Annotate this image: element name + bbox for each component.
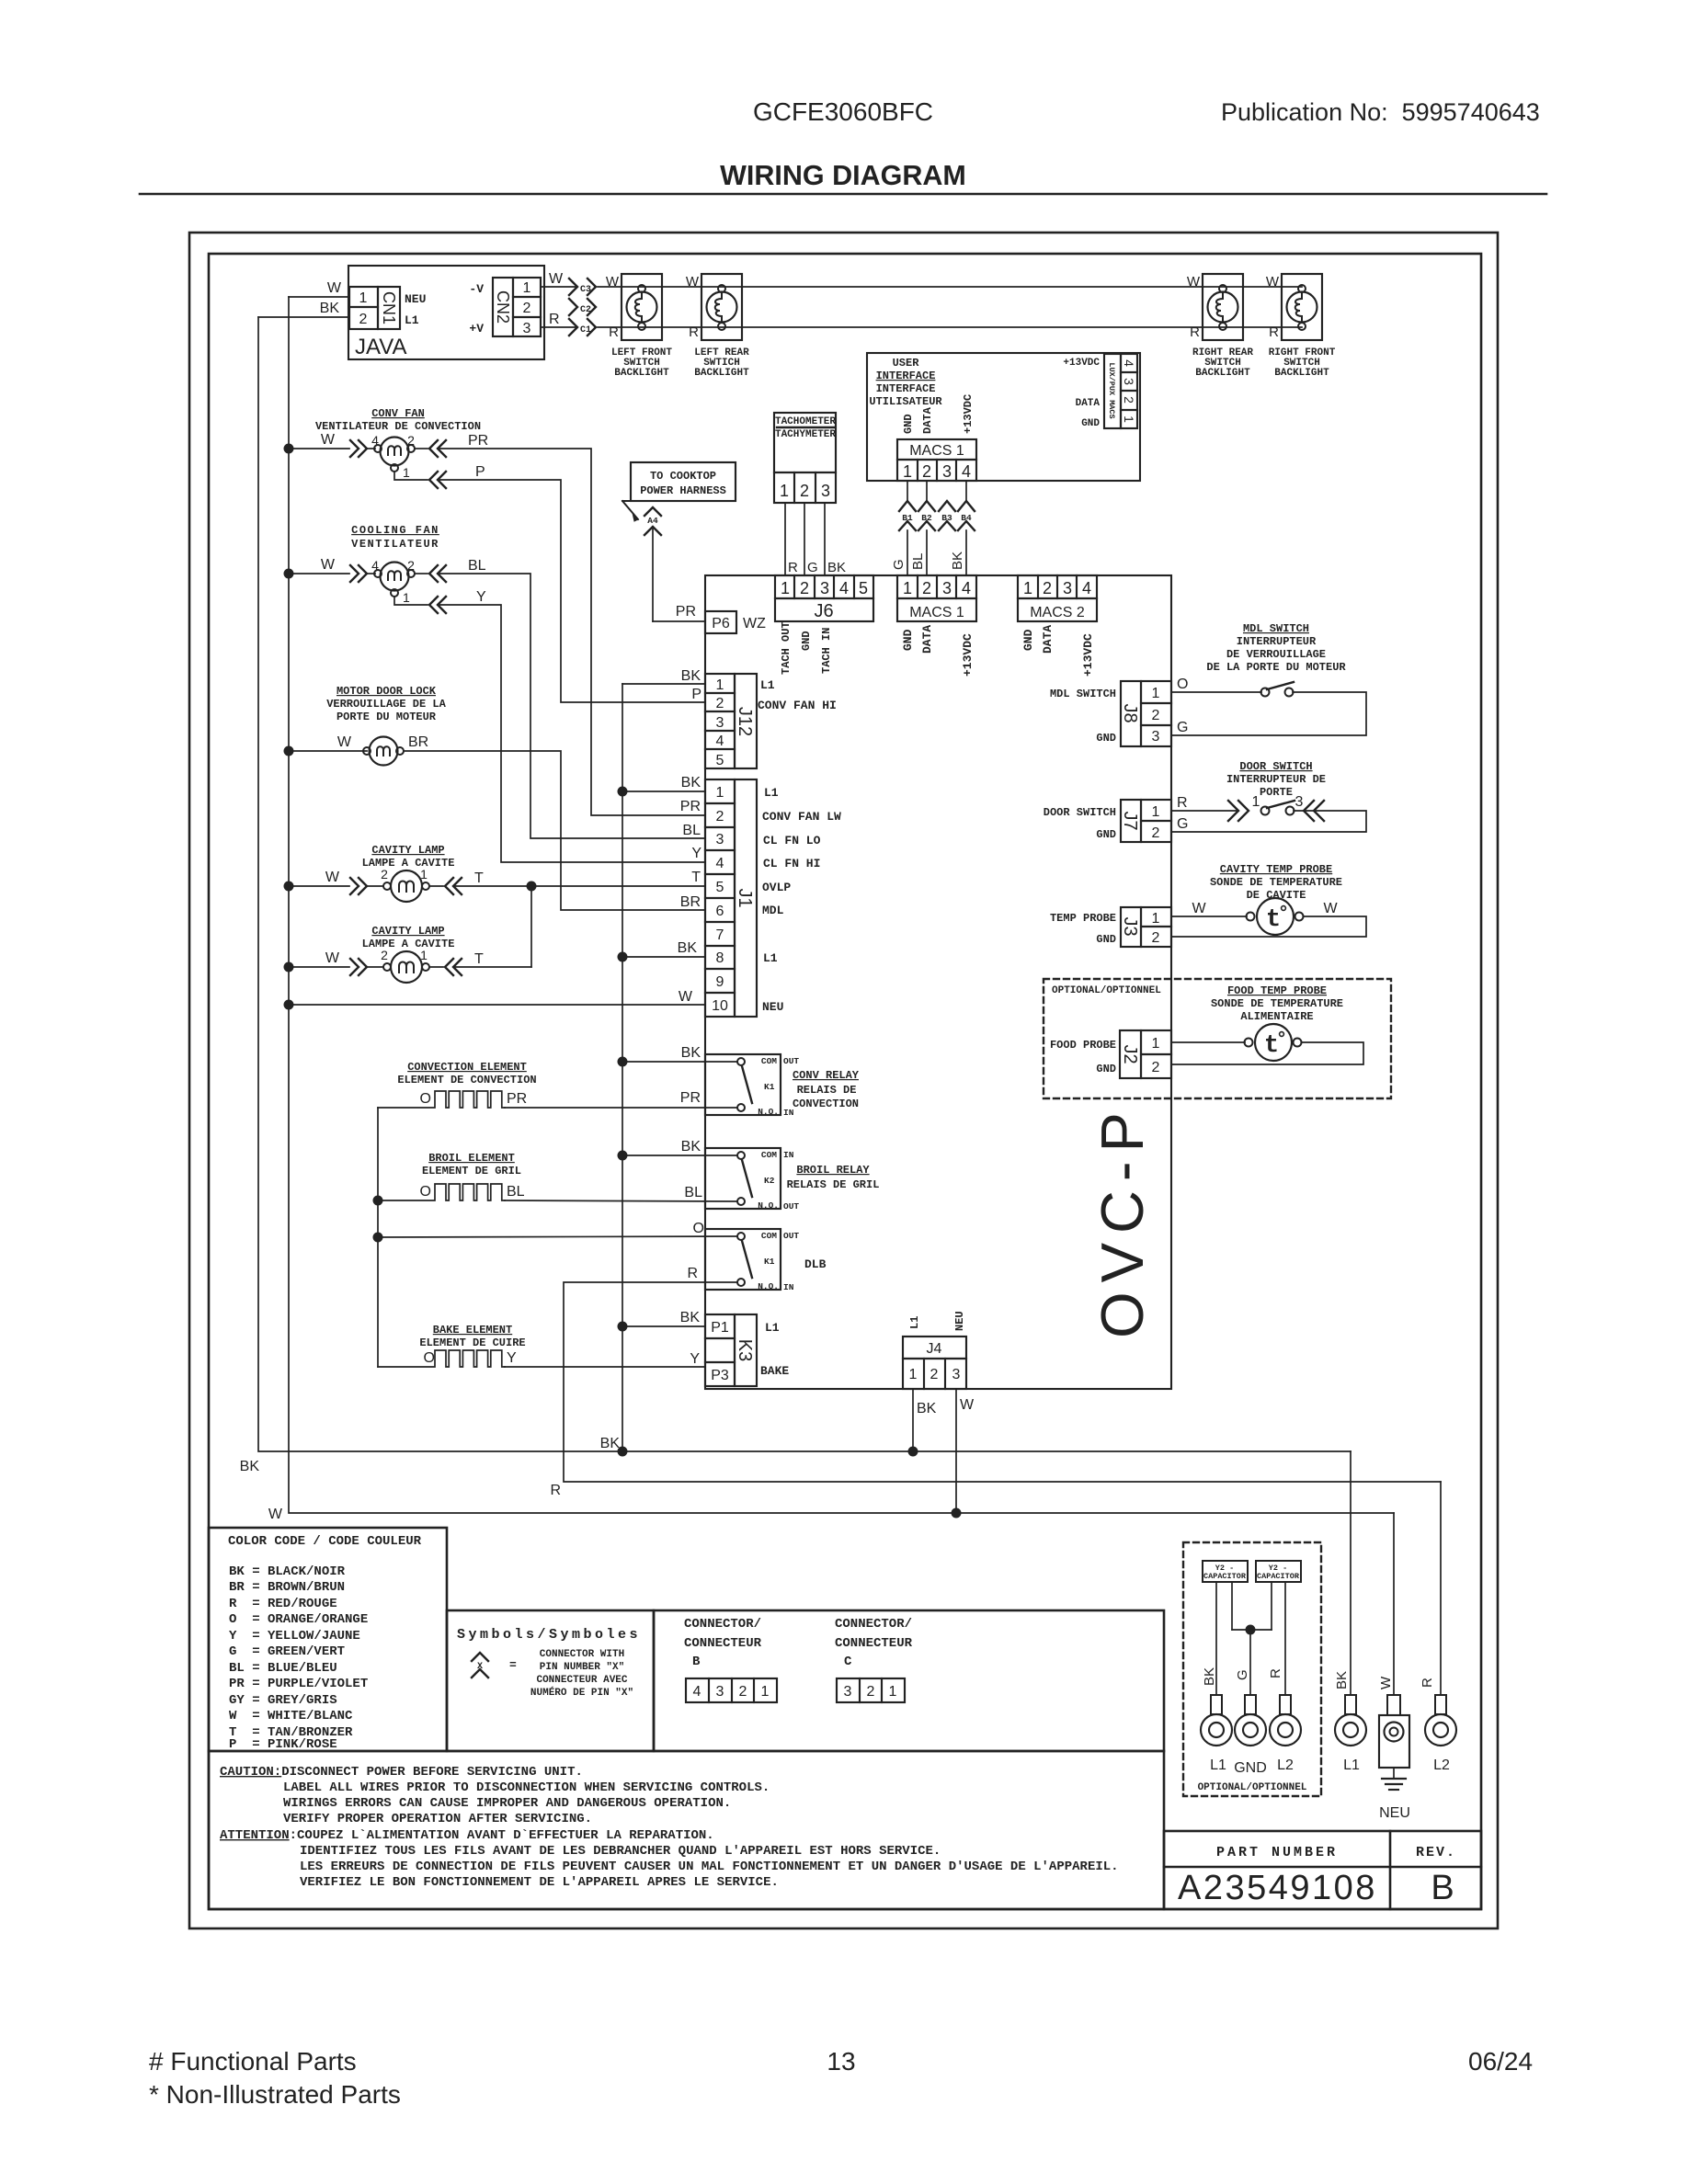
svg-text:PR: PR (676, 604, 696, 620)
svg-text:CONNECTOR/: CONNECTOR/ (684, 1617, 761, 1632)
svg-text:GND: GND (1096, 1063, 1116, 1075)
svg-text:1: 1 (1023, 579, 1032, 597)
svg-text:LAMPE A CAVITE: LAMPE A CAVITE (362, 857, 455, 870)
svg-text:PR: PR (468, 433, 488, 449)
wire W bus left (268, 297, 1394, 1522)
wire W to terminal NEU (1378, 1513, 1394, 1695)
svg-text:PORTE: PORTE (1260, 786, 1293, 799)
svg-text:UTILISATEUR: UTILISATEUR (869, 395, 942, 408)
svg-text:ELEMENT DE GRIL: ELEMENT DE GRIL (422, 1165, 521, 1177)
svg-text:BL: BL (910, 553, 926, 570)
svg-text:MACS 1: MACS 1 (909, 443, 964, 459)
svg-text:P1: P1 (711, 1320, 729, 1336)
wire BK to terminal L1 (1334, 1451, 1351, 1695)
svg-text:BK: BK (681, 775, 701, 791)
junction W bus motor door lock (284, 746, 294, 756)
svg-text:COM: COM (761, 1056, 777, 1066)
lamp RIGHT REAR SWITCH BACKLIGHT (1187, 274, 1254, 379)
svg-text:W: W (1323, 901, 1338, 916)
svg-text:J2: J2 (1120, 1044, 1140, 1064)
svg-text:PORTE DU MOTEUR: PORTE DU MOTEUR (336, 711, 437, 723)
wire BK tach pin3 to J6 pin3 (825, 503, 846, 575)
svg-text:PR: PR (680, 1090, 701, 1106)
junction W bus cooling fan (284, 569, 294, 579)
svg-text:1: 1 (403, 590, 410, 605)
svg-text:* Non-Illustrated Parts: * Non-Illustrated Parts (149, 2080, 401, 2109)
svg-text:3: 3 (523, 321, 531, 336)
connector J8 (1050, 681, 1171, 746)
svg-text:J1: J1 (735, 888, 755, 907)
svg-text:L1: L1 (764, 786, 779, 800)
svg-text:CONNECTEUR: CONNECTEUR (684, 1636, 762, 1651)
svg-text:Y: Y (690, 1351, 700, 1367)
svg-text:BL: BL (684, 1185, 702, 1200)
svg-text:OUT: OUT (783, 1231, 799, 1241)
svg-text:T: T (474, 951, 484, 967)
svg-text:W: W (327, 280, 342, 296)
svg-text:R: R (609, 324, 619, 340)
svg-text:W: W (1266, 274, 1280, 290)
svg-text:TEMP PROBE: TEMP PROBE (1050, 912, 1116, 925)
svg-text:3: 3 (1295, 794, 1304, 810)
svg-text:PART NUMBER: PART NUMBER (1216, 1845, 1338, 1860)
svg-text:N.O.: N.O. (758, 1281, 779, 1291)
svg-text:R = RED/ROUGE: R = RED/ROUGE (229, 1597, 337, 1611)
svg-text:G: G (891, 559, 907, 570)
connector B3 (939, 501, 955, 530)
connector C2 (no wire) (569, 299, 596, 315)
svg-text:L1: L1 (908, 1316, 921, 1329)
svg-text:MACS 1: MACS 1 (909, 605, 964, 620)
junction W bus J1 pin10 (284, 1000, 294, 1010)
junction BK bus J1 pin8 (618, 940, 706, 962)
svg-text:BK: BK (827, 560, 846, 575)
svg-text:L1: L1 (760, 678, 775, 692)
svg-text:O: O (420, 1091, 431, 1107)
connector K3 (705, 1314, 789, 1386)
svg-text:5: 5 (716, 753, 724, 768)
svg-text:1: 1 (1152, 804, 1160, 820)
svg-text:K1: K1 (764, 1082, 775, 1092)
svg-text:2: 2 (922, 579, 931, 597)
svg-text:TO COOKTOP: TO COOKTOP (650, 470, 716, 483)
svg-text:BACKLIGHT: BACKLIGHT (694, 368, 749, 379)
svg-text:A23549108: A23549108 (1178, 1869, 1377, 1907)
svg-text:P: P (475, 464, 485, 480)
svg-text:1: 1 (761, 1684, 770, 1700)
svg-text:3: 3 (821, 482, 830, 500)
svg-text:BK: BK (681, 668, 701, 684)
svg-text:BAKE ELEMENT: BAKE ELEMENT (433, 1324, 512, 1337)
svg-text:BK: BK (681, 1139, 701, 1155)
svg-text:L1: L1 (1343, 1757, 1360, 1773)
connector J7 (1044, 800, 1171, 842)
svg-text:P3: P3 (711, 1368, 729, 1383)
svg-text:BK: BK (680, 1310, 701, 1325)
svg-text:OUT: OUT (783, 1201, 799, 1211)
svg-text:P = PINK/ROSE: P = PINK/ROSE (229, 1737, 337, 1752)
terminal NEU (1379, 1695, 1410, 1821)
svg-text:3: 3 (952, 1367, 961, 1382)
svg-text:2: 2 (867, 1684, 875, 1700)
svg-text:GND: GND (902, 414, 915, 434)
svg-text:3: 3 (1122, 378, 1136, 385)
switch MDL SWITCH (1171, 622, 1366, 735)
svg-text:L1: L1 (1210, 1757, 1226, 1773)
svg-text:+V: +V (469, 322, 484, 336)
svg-text:BK: BK (917, 1401, 937, 1416)
svg-text:1: 1 (781, 579, 790, 597)
svg-text:W: W (321, 557, 336, 573)
connector B1 (899, 481, 916, 530)
svg-text:t: t (1266, 906, 1281, 934)
svg-text:2: 2 (1122, 396, 1136, 404)
capacitor Y2 left (1203, 1561, 1248, 1695)
wire O to DLB relay COM (378, 1221, 737, 1237)
heater BROIL ELEMENT (378, 1152, 525, 1200)
svg-text:BK: BK (1202, 1667, 1217, 1686)
svg-text:LAMPE A CAVITE: LAMPE A CAVITE (362, 938, 455, 950)
svg-text:C: C (844, 1655, 852, 1669)
connector J4 (903, 1311, 966, 1389)
capacitor Y2 right (1256, 1561, 1301, 1695)
svg-text:DATA: DATA (921, 406, 934, 434)
optional dashed box FOOD TEMP PROBE (1044, 979, 1391, 1098)
svg-text:BAKE: BAKE (760, 1364, 789, 1378)
svg-text:Publication No: 5995740643: Publication No: 5995740643 (1221, 98, 1540, 126)
svg-text:1: 1 (420, 867, 428, 882)
svg-text:DLB: DLB (804, 1257, 827, 1271)
svg-text:PR: PR (680, 799, 701, 814)
connector A4 (644, 507, 661, 535)
wire BK from CN1 pin 2 to BK bus (258, 301, 349, 317)
svg-text:1: 1 (1152, 1036, 1160, 1052)
svg-text:DOOR SWITCH: DOOR SWITCH (1044, 806, 1116, 819)
wire O element common bus (373, 1108, 383, 1367)
relay K2 BROIL RELAY (705, 1148, 879, 1211)
svg-text:J4: J4 (927, 1341, 942, 1357)
svg-text:1: 1 (420, 948, 428, 962)
svg-text:BACKLIGHT: BACKLIGHT (1274, 368, 1329, 379)
wire R to terminal L2 (1420, 1482, 1441, 1695)
svg-text:CAVITY TEMP PROBE: CAVITY TEMP PROBE (1220, 863, 1332, 876)
svg-text:1: 1 (523, 280, 531, 296)
svg-text:O = ORANGE/ORANGE: O = ORANGE/ORANGE (229, 1612, 368, 1627)
connector CN1 (349, 287, 426, 329)
svg-text:3: 3 (1152, 729, 1160, 745)
svg-text:ALIMENTAIRE: ALIMENTAIRE (1240, 1010, 1313, 1023)
svg-text:IN: IN (783, 1282, 794, 1292)
svg-text:BK = BLACK/NOIR: BK = BLACK/NOIR (229, 1564, 346, 1579)
junction W bus cavity lamp 2 (284, 962, 294, 973)
svg-text:3: 3 (716, 1684, 724, 1700)
svg-text:B: B (692, 1655, 701, 1669)
svg-text:CONVECTION ELEMENT: CONVECTION ELEMENT (407, 1061, 527, 1074)
wire R tach pin1 to J6 pin1 (785, 503, 798, 575)
lamp LEFT FRONT SWITCH BACKLIGHT (606, 274, 673, 379)
svg-text:3: 3 (942, 579, 952, 597)
svg-text:P: P (691, 687, 701, 702)
svg-text:CAVITY LAMP: CAVITY LAMP (371, 925, 444, 938)
svg-text:INTERRUPTEUR: INTERRUPTEUR (1237, 635, 1317, 648)
wire BL from B2 to MACS1 pin2 (910, 530, 927, 575)
connector J3 (1050, 907, 1171, 947)
svg-text:T: T (474, 870, 484, 886)
connector J6 (775, 575, 873, 675)
svg-text:1: 1 (716, 677, 724, 693)
svg-text:J12: J12 (735, 707, 755, 736)
svg-text:# Functional Parts: # Functional Parts (149, 2047, 357, 2076)
svg-text:MDL SWITCH: MDL SWITCH (1243, 622, 1309, 635)
svg-text:+13VDC: +13VDC (1081, 633, 1095, 677)
svg-text:BACKLIGHT: BACKLIGHT (1195, 368, 1250, 379)
OVC-P control board outline (705, 575, 1171, 1389)
svg-text:GND: GND (901, 629, 915, 651)
svg-text:LABEL ALL WIRES PRIOR TO DISCO: LABEL ALL WIRES PRIOR TO DISCONNECTION W… (283, 1780, 770, 1795)
svg-text:2: 2 (930, 1367, 939, 1382)
svg-text:CONNECTOR/: CONNECTOR/ (835, 1617, 912, 1632)
svg-text:BK: BK (600, 1436, 621, 1451)
optional dashed box capacitors (1183, 1542, 1321, 1796)
svg-text:GND: GND (1081, 418, 1100, 429)
svg-text:PR: PR (507, 1091, 527, 1107)
svg-text:BL: BL (507, 1184, 525, 1200)
svg-text:O: O (420, 1184, 431, 1200)
svg-text:N.O.: N.O. (758, 1107, 779, 1117)
heater CONVECTION ELEMENT (378, 1061, 537, 1108)
svg-text:G: G (1177, 720, 1188, 735)
svg-text:BL: BL (468, 558, 486, 574)
wire W top run to right front lamp (598, 286, 1302, 288)
connector J2 (1050, 1030, 1171, 1078)
svg-text:13: 13 (827, 2047, 855, 2076)
junction BK bus conv relay COM (618, 1045, 738, 1067)
svg-text:OPTIONAL/OPTIONNEL: OPTIONAL/OPTIONNEL (1198, 1782, 1307, 1793)
svg-text:DATA: DATA (1076, 398, 1101, 409)
wire W J4 pin3 (952, 1389, 975, 1519)
svg-text:R: R (1268, 1668, 1283, 1678)
svg-text:GND: GND (1234, 1760, 1267, 1776)
svg-text:OUT: OUT (783, 1056, 799, 1066)
svg-text:4: 4 (371, 558, 379, 573)
svg-text:3: 3 (1063, 579, 1072, 597)
svg-text:J8: J8 (1120, 703, 1140, 722)
inner border frame (209, 254, 1481, 1909)
wire G from B1 to MACS1 pin1 (891, 530, 907, 575)
wire P conv fan pin1 to J12 pin2 (394, 464, 705, 702)
wire R DLB relay NO (550, 1266, 1441, 1498)
svg-text:CAVITY LAMP: CAVITY LAMP (371, 844, 444, 857)
svg-text:WZ: WZ (743, 616, 766, 631)
svg-text:2: 2 (800, 482, 809, 500)
svg-text:NEU: NEU (762, 1000, 783, 1014)
symbols legend box (447, 1610, 654, 1751)
svg-text:CONNECTOR WITH: CONNECTOR WITH (540, 1649, 624, 1660)
svg-text:W: W (960, 1397, 975, 1413)
svg-text:A4: A4 (647, 516, 658, 526)
connector B4 (958, 481, 975, 530)
svg-text:1: 1 (1122, 415, 1136, 423)
svg-text:06/24: 06/24 (1468, 2047, 1533, 2076)
svg-text:R: R (1190, 324, 1200, 340)
wire G capacitor common to GND ring (1232, 1625, 1272, 1696)
svg-text:CONV RELAY: CONV RELAY (793, 1069, 860, 1082)
heater BAKE ELEMENT (378, 1324, 526, 1367)
svg-text:MOTOR DOOR LOCK: MOTOR DOOR LOCK (336, 685, 437, 698)
svg-text:Symbols/Symboles: Symbols/Symboles (457, 1627, 641, 1643)
probe CAVITY TEMP PROBE (1171, 863, 1366, 937)
svg-text:POWER HARNESS: POWER HARNESS (640, 484, 726, 497)
svg-text:ATTENTION:COUPEZ L`ALIMENTATIO: ATTENTION:COUPEZ L`ALIMENTATION AVANT D`… (220, 1828, 714, 1843)
svg-text:3: 3 (820, 579, 829, 597)
terminal ring GND optional (1234, 1695, 1267, 1776)
svg-text:BK: BK (681, 1045, 701, 1061)
svg-text:3: 3 (942, 462, 952, 481)
svg-text:2: 2 (716, 696, 724, 711)
svg-text:O: O (424, 1350, 435, 1366)
svg-text:RELAIS DE GRIL: RELAIS DE GRIL (787, 1178, 880, 1191)
svg-text:CONV FAN: CONV FAN (371, 407, 425, 420)
svg-text:FOOD TEMP PROBE: FOOD TEMP PROBE (1227, 984, 1327, 997)
svg-text:CONV FAN LW: CONV FAN LW (762, 810, 841, 824)
wire BL broil element to broil relay NO (505, 1185, 737, 1201)
wire BL cooling fan to J1 pin3 (415, 558, 705, 838)
svg-text:2: 2 (922, 462, 931, 481)
svg-text:O: O (693, 1221, 704, 1236)
svg-text:BK: BK (678, 940, 698, 956)
svg-text:5: 5 (716, 880, 724, 895)
wire BK from B4 to MACS1 pin4 (950, 530, 966, 575)
svg-text:DATA: DATA (920, 625, 934, 654)
svg-text:R: R (788, 560, 798, 575)
svg-text:J6: J6 (814, 601, 833, 621)
connector J1 (705, 779, 841, 1017)
svg-text:GND: GND (1096, 933, 1116, 946)
svg-text:WIRING DIAGRAM: WIRING DIAGRAM (720, 160, 966, 191)
svg-text:CAPACITOR: CAPACITOR (1203, 1572, 1247, 1581)
svg-text:IN: IN (783, 1150, 794, 1160)
svg-text:L1: L1 (763, 951, 778, 965)
svg-text:RELAIS DE: RELAIS DE (797, 1084, 857, 1097)
svg-text:4: 4 (1082, 579, 1091, 597)
svg-text:BK: BK (950, 552, 965, 570)
svg-text:OPTIONAL/OPTIONNEL: OPTIONAL/OPTIONNEL (1052, 985, 1161, 996)
svg-text:1: 1 (359, 290, 368, 306)
wire BR motor door lock to J1 pin6 (404, 751, 705, 910)
svg-text:8: 8 (716, 950, 724, 966)
junction W bus conv fan (284, 444, 294, 454)
svg-text:L2: L2 (1433, 1757, 1450, 1773)
svg-text:LES ERREURS DE CONNECTION DE F: LES ERREURS DE CONNECTION DE FILS PEUVEN… (300, 1860, 1119, 1874)
connector LUX/PUX MACS (1063, 354, 1137, 429)
svg-text:NEU: NEU (953, 1311, 966, 1331)
svg-text:t: t (1264, 1032, 1279, 1060)
svg-text:4: 4 (716, 856, 724, 871)
svg-text:R: R (687, 1266, 698, 1281)
svg-text:O: O (1177, 677, 1188, 692)
wire R bottom run to right front lamp (598, 326, 1302, 328)
connector B2 (918, 481, 935, 530)
svg-text:NEU: NEU (405, 292, 426, 306)
svg-text:BR: BR (680, 894, 701, 910)
svg-text:+13VDC: +13VDC (1063, 358, 1100, 369)
relay K1 CONV RELAY (705, 1054, 860, 1118)
svg-text:INTERFACE: INTERFACE (876, 382, 936, 395)
wire BK board bus (622, 668, 705, 1451)
svg-text:BR = BROWN/BRUN: BR = BROWN/BRUN (229, 1580, 345, 1595)
svg-text:TACHYMETER: TACHYMETER (775, 429, 836, 440)
wire PR conv fan to J1 pin2 (415, 433, 705, 815)
wire BK J4 pin1 (908, 1389, 937, 1457)
svg-text:4: 4 (716, 734, 724, 749)
wire R from CN2 pin 3 with connector C1 (541, 312, 596, 336)
svg-text:W: W (1192, 901, 1206, 916)
svg-text:CONV FAN HI: CONV FAN HI (758, 699, 837, 712)
svg-text:BK: BK (1334, 1671, 1350, 1689)
svg-text:VENTILATEUR DE CONVECTION: VENTILATEUR DE CONVECTION (315, 420, 481, 433)
JAVA module box (348, 266, 544, 359)
svg-text:INTERRUPTEUR DE: INTERRUPTEUR DE (1226, 773, 1326, 786)
svg-text:W: W (325, 950, 340, 966)
svg-text:ELEMENT DE CUIRE: ELEMENT DE CUIRE (419, 1337, 525, 1349)
svg-text:PIN NUMBER "X": PIN NUMBER "X" (540, 1662, 624, 1673)
svg-text:-V: -V (469, 282, 484, 296)
svg-text:6: 6 (716, 904, 724, 919)
svg-text:IDENTIFIEZ TOUS LES FILS AVANT: IDENTIFIEZ TOUS LES FILS AVANT DE LES DE… (300, 1844, 941, 1859)
svg-text:R: R (549, 312, 560, 327)
svg-text:1: 1 (903, 462, 912, 481)
svg-text:2: 2 (1152, 708, 1160, 723)
TO COOKTOP POWER HARNESS box (622, 462, 736, 521)
svg-text:COM: COM (761, 1150, 777, 1160)
svg-text:3: 3 (716, 715, 724, 731)
svg-text:10: 10 (712, 998, 728, 1014)
terminal ring L2 (1425, 1695, 1456, 1773)
svg-text:2: 2 (1043, 579, 1052, 597)
lamp CAVITY LAMP 2 (289, 925, 531, 983)
svg-text:BK: BK (320, 301, 340, 316)
title rule (140, 193, 1546, 196)
svg-text:CL FN HI: CL FN HI (763, 857, 820, 870)
svg-text:BROIL ELEMENT: BROIL ELEMENT (428, 1152, 515, 1165)
svg-text:G: G (1177, 816, 1188, 832)
svg-text:GND: GND (1096, 828, 1116, 841)
svg-text:2: 2 (716, 809, 724, 825)
svg-text:DE VERROUILLAGE: DE VERROUILLAGE (1226, 648, 1326, 661)
svg-text:1: 1 (716, 785, 724, 801)
lamp LEFT REAR SWTICH BACKLIGHT (686, 274, 749, 379)
svg-text:GND: GND (800, 631, 813, 651)
svg-text:L1: L1 (765, 1321, 780, 1335)
svg-text:2: 2 (1152, 825, 1160, 841)
svg-text:W: W (686, 274, 700, 290)
wire G tach pin2 to J6 pin2 (804, 503, 818, 575)
fan COOLING FAN (289, 524, 439, 605)
svg-text:2: 2 (407, 558, 415, 573)
svg-text:R: R (689, 324, 699, 340)
outer border frame (189, 233, 1498, 1928)
svg-text:CONVECTION: CONVECTION (793, 1098, 859, 1110)
svg-text:CL FN LO: CL FN LO (763, 834, 821, 847)
svg-text:2: 2 (523, 301, 531, 316)
svg-text:+13VDC: +13VDC (962, 394, 975, 434)
svg-text:2: 2 (381, 948, 388, 962)
svg-text:LUX/PUX MACS: LUX/PUX MACS (1107, 362, 1116, 418)
svg-text:1: 1 (1152, 911, 1160, 927)
svg-text:COOLING FAN: COOLING FAN (351, 524, 439, 537)
svg-text:K2: K2 (764, 1176, 775, 1186)
wire Y bake element to K3 P3 (505, 1351, 705, 1367)
